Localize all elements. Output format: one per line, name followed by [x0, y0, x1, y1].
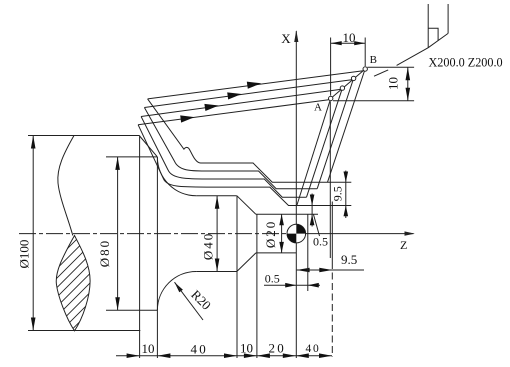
svg-text:Ø100: Ø100	[16, 240, 31, 269]
feed arrow 1	[180, 115, 194, 122]
finish allowance 0.5 vertical dim line	[311, 194, 313, 227]
workpiece Ø80 top edge	[106, 156, 157, 158]
break lens outline	[56, 236, 90, 331]
start point circle A	[329, 96, 333, 100]
start point circle c2	[340, 86, 344, 90]
svg-text:Ø80: Ø80	[97, 239, 112, 267]
dimension Ø40 arrows	[215, 196, 220, 272]
bottom arrows	[127, 353, 140, 358]
dimension Ø20 arrows	[279, 214, 284, 253]
fillet R20 bottom arc (mirror)	[157, 272, 196, 311]
chamfer corner diagonal	[140, 136, 158, 157]
R20 leader arrow	[175, 282, 183, 292]
dimension Ø100 arrows	[31, 136, 36, 331]
dimension 0.5 lower arrows	[285, 283, 319, 288]
dimension 10 top line	[331, 42, 366, 44]
bottom dimension line	[116, 355, 332, 357]
dimension Ø40 line	[216, 196, 218, 272]
workpiece Ø40 top edge	[196, 195, 237, 197]
start points connector line A-B	[331, 69, 366, 99]
svg-text:Z: Z	[400, 238, 407, 252]
workpiece Ø20 top edge	[256, 213, 318, 215]
dimension 0.5 lower line	[264, 284, 320, 286]
extension line from B rightward	[367, 66, 414, 68]
origin datum symbol	[287, 224, 306, 243]
dimension 10 right arrows	[406, 67, 411, 100]
extension line x=237	[236, 196, 238, 358]
leader for 0.5 upper	[314, 215, 320, 237]
plunge line from c3 to pass3	[317, 81, 353, 189]
centerline dash-dot	[19, 233, 288, 235]
svg-text:10: 10	[385, 77, 400, 90]
extension of pass1 line to 9.5 dimension	[297, 205, 352, 207]
svg-text:9.5: 9.5	[341, 252, 357, 267]
svg-text:10: 10	[343, 30, 356, 45]
svg-text:R20: R20	[188, 287, 214, 313]
Z axis arrow	[405, 231, 415, 235]
toolpath contour pass 1 (closest to profile)	[138, 125, 297, 206]
svg-text:B: B	[370, 54, 377, 66]
svg-text:0.5: 0.5	[265, 271, 280, 285]
X axis line	[295, 31, 297, 358]
extension line A upward	[330, 38, 332, 96]
tool tip diagonal	[397, 33, 449, 65]
finish allowance 0.5 arrows	[310, 195, 315, 226]
dimension Ø100 line	[32, 136, 34, 331]
feed arrow 4	[247, 82, 261, 89]
tool holder left vertical	[427, 4, 429, 48]
svg-text:Ø20: Ø20	[263, 220, 278, 248]
retract line pass2 end to c3	[144, 80, 351, 108]
break S-curve	[58, 136, 74, 236]
svg-text:Ø40: Ø40	[201, 232, 216, 260]
dimension 10 top arrows	[331, 41, 366, 45]
taper top edge	[237, 196, 256, 215]
start point circle B	[363, 67, 367, 71]
extension line A downward solid	[329, 102, 331, 259]
allowance line Z+0.5 vertical	[307, 214, 309, 291]
workpiece Ø100 top edge	[28, 135, 140, 137]
start point circle c3	[351, 76, 355, 80]
svg-text:0.5: 0.5	[313, 234, 328, 248]
X axis arrow	[294, 30, 298, 42]
svg-text:9.5: 9.5	[331, 186, 345, 201]
plunge line from B to pass4	[328, 71, 365, 182]
fillet R20 top arc	[157, 157, 196, 196]
workpiece left face / extension line x=139.6	[139, 136, 141, 359]
feed arrow 3	[227, 92, 241, 99]
extension line for 40 dim (start point)	[331, 202, 333, 263]
Z axis line	[288, 233, 414, 235]
extension line A downward dashed	[331, 262, 333, 357]
svg-text:X200.0 Z200.0: X200.0 Z200.0	[429, 55, 503, 69]
svg-text:X: X	[281, 31, 291, 46]
workpiece Ø20 bottom edge	[256, 252, 296, 254]
taper bottom edge	[237, 253, 256, 272]
extension line from A rightward	[333, 100, 414, 102]
dimension Ø80 line	[117, 157, 119, 310]
svg-text:10: 10	[142, 341, 155, 356]
dimension 9.5 vertical arrows	[344, 172, 349, 217]
svg-text:40: 40	[306, 343, 321, 355]
R20 leader line	[175, 282, 204, 320]
workpiece Ø100 bottom edge	[28, 330, 140, 332]
toolpath contour pass 3	[144, 108, 317, 189]
toolpath contour pass 2	[141, 117, 306, 198]
dimension 9.5 vertical line	[345, 171, 347, 219]
dimension 10 right line	[407, 67, 409, 100]
svg-text:10: 10	[240, 341, 253, 356]
svg-text:A: A	[314, 101, 322, 113]
extension of pass4 line to 9.5 dimension	[328, 181, 352, 183]
extension line x=256.9	[256, 215, 258, 359]
workpiece Ø40 bottom edge	[196, 271, 237, 273]
feed arrow 2	[204, 104, 218, 111]
extension line B upward	[364, 38, 366, 67]
dimension 9.5 horizontal line	[297, 269, 364, 271]
retract line pass4 end to A	[138, 100, 329, 125]
plunge line from A to pass1	[297, 101, 330, 206]
retract line pass1 end to B	[148, 71, 364, 99]
tool notch	[428, 28, 438, 41]
dimension Ø80 arrows	[115, 157, 120, 310]
dimension 9.5 horizontal arrows	[297, 268, 333, 273]
retract line pass3 end to c2	[141, 89, 340, 116]
toolpath contour pass 4 (outermost)	[148, 99, 328, 182]
plunge line from c2 to pass2	[307, 90, 342, 197]
svg-text:40: 40	[191, 342, 208, 357]
svg-text:20: 20	[269, 341, 286, 356]
dimension Ø20 line	[281, 214, 283, 253]
extension line x=157.4	[156, 158, 158, 359]
workpiece Ø80 bottom edge	[106, 309, 157, 311]
tool holder right vertical	[447, 4, 449, 33]
leader dash to start point	[374, 70, 388, 76]
